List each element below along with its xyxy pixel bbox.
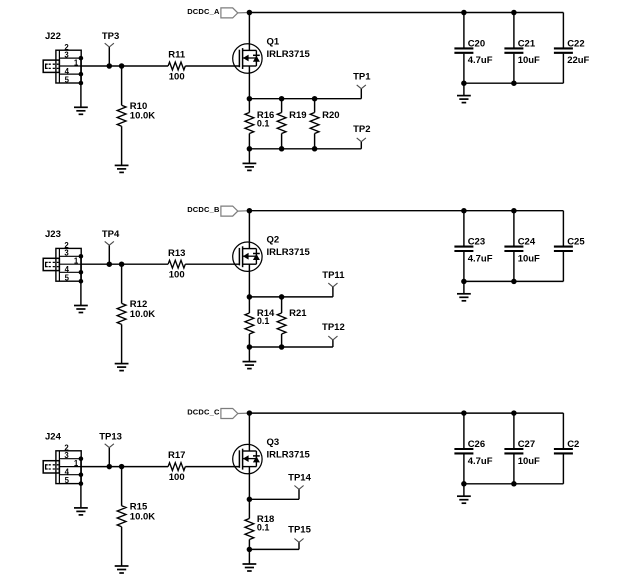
svg-text:10.0K: 10.0K bbox=[130, 511, 155, 522]
node R14 bottom junction bbox=[247, 344, 253, 350]
value 10uF of C21 bbox=[518, 55, 540, 66]
svg-text:IRLR3715: IRLR3715 bbox=[267, 49, 311, 60]
svg-text:C27: C27 bbox=[518, 439, 535, 450]
ground below R10 bbox=[115, 165, 129, 172]
node cap bus junction mid bbox=[511, 80, 517, 86]
svg-text:C2: C2 bbox=[567, 439, 579, 450]
value 22uF of C22 bbox=[567, 55, 589, 66]
capacitor C27 bbox=[504, 413, 535, 484]
svg-text:C20: C20 bbox=[468, 38, 485, 49]
wire to R16 bbox=[248, 99, 250, 113]
wire to R19 bbox=[281, 99, 283, 113]
svg-text:0.1: 0.1 bbox=[257, 523, 270, 533]
svg-text:R21: R21 bbox=[289, 308, 307, 319]
svg-text:4.7uF: 4.7uF bbox=[468, 456, 493, 467]
wire R11 to Q1 gate bbox=[185, 65, 239, 67]
node R19 top junction bbox=[279, 96, 285, 102]
J22 pin 5 bbox=[65, 75, 84, 85]
wire Q2 source to bus bbox=[248, 264, 250, 297]
resistor R16 bbox=[245, 110, 274, 134]
svg-text:TP1: TP1 bbox=[353, 72, 371, 83]
svg-text:IRLR3715: IRLR3715 bbox=[267, 247, 311, 258]
svg-text:Q3: Q3 bbox=[267, 437, 280, 448]
svg-text:10.0K: 10.0K bbox=[130, 111, 155, 122]
node R16 bottom junction bbox=[247, 146, 253, 152]
wire R14 to bottom bus bbox=[248, 334, 250, 347]
svg-text:TP14: TP14 bbox=[288, 472, 311, 483]
wire R15 to ground bbox=[121, 527, 123, 566]
svg-text:J24: J24 bbox=[45, 431, 62, 442]
J24 pin 4 bbox=[65, 468, 84, 477]
capacitor C20 bbox=[454, 13, 485, 84]
node R18 top junction bbox=[247, 497, 253, 503]
net DCDC_A off-page flag bbox=[221, 8, 250, 18]
wire bottom bus to TP2 bbox=[249, 142, 361, 149]
J24 pin 2 bbox=[64, 444, 69, 453]
svg-text:C24: C24 bbox=[518, 237, 536, 248]
wire top rail DCDC_A bbox=[249, 12, 563, 14]
wire to R21 bbox=[281, 297, 283, 313]
wire Q1 source to bus bbox=[248, 66, 250, 99]
ground at J22 bbox=[74, 107, 88, 114]
svg-text:R17: R17 bbox=[168, 450, 185, 461]
svg-text:Q2: Q2 bbox=[267, 235, 280, 246]
test point TP13 bbox=[99, 431, 122, 466]
node C26 top junction bbox=[461, 410, 467, 416]
J23 pin 1 bbox=[74, 257, 79, 266]
test point TP3 bbox=[102, 31, 119, 66]
svg-text:TP4: TP4 bbox=[102, 229, 120, 240]
Q3 label bbox=[267, 437, 280, 448]
svg-text:Q1: Q1 bbox=[267, 36, 280, 47]
svg-text:10uF: 10uF bbox=[518, 253, 540, 264]
capacitor C2 bbox=[554, 413, 579, 484]
J22 pin 1 bbox=[74, 58, 79, 67]
ground below C26 bbox=[457, 496, 471, 503]
node R19 bottom junction bbox=[279, 146, 285, 152]
ground below C23 bbox=[457, 294, 471, 301]
node cap bus junction mid bbox=[511, 279, 517, 285]
wire capacitor bottom bus bbox=[464, 82, 564, 84]
node R20 bottom junction bbox=[312, 146, 318, 152]
value 10uF of C27 bbox=[518, 456, 540, 467]
J22 pin 2 bbox=[64, 43, 69, 52]
resistor R15 bbox=[117, 502, 148, 527]
capacitor C22 bbox=[554, 13, 585, 84]
resistor R11 bbox=[168, 50, 186, 70]
capacitor C21 bbox=[504, 13, 535, 84]
wire bottom bus to TP15 bbox=[249, 542, 299, 549]
transistor Q1 IRLR3715 bbox=[233, 13, 262, 74]
svg-text:0.1: 0.1 bbox=[257, 316, 270, 326]
svg-text:5: 5 bbox=[65, 75, 70, 84]
test point TP11 bbox=[322, 270, 345, 287]
svg-text:TP15: TP15 bbox=[288, 524, 311, 535]
wire cap bus to ground bbox=[463, 83, 465, 95]
node cap bus junction left bbox=[461, 481, 467, 487]
svg-text:10uF: 10uF bbox=[518, 55, 540, 66]
svg-text:5: 5 bbox=[65, 274, 70, 283]
svg-text:R20: R20 bbox=[322, 110, 339, 121]
node R20 top junction bbox=[312, 96, 318, 102]
node C27 top junction bbox=[511, 410, 517, 416]
svg-text:3: 3 bbox=[64, 50, 69, 59]
net DCDC_A label bbox=[187, 7, 220, 16]
test point TP12 bbox=[322, 322, 345, 340]
ground below C20 bbox=[457, 96, 471, 103]
svg-text:5: 5 bbox=[65, 476, 70, 485]
J23 label bbox=[45, 229, 61, 240]
resistor R19 bbox=[277, 110, 306, 134]
node drain rail junction bbox=[247, 10, 253, 16]
svg-text:22uF: 22uF bbox=[567, 55, 589, 66]
value 0.1 of R18 bbox=[257, 523, 270, 533]
ground at J24 bbox=[74, 508, 88, 515]
resistor R21 bbox=[277, 308, 307, 334]
node C23 top junction bbox=[461, 208, 467, 214]
ground below R15 bbox=[115, 566, 129, 573]
svg-text:10.0K: 10.0K bbox=[130, 309, 155, 320]
node R18 bottom junction bbox=[247, 547, 253, 553]
net DCDC_C off-page flag bbox=[221, 409, 250, 419]
J22 pin 3 bbox=[64, 50, 83, 60]
resistor R18 bbox=[245, 514, 274, 539]
J23 pin 3 bbox=[64, 249, 83, 259]
node cap bus junction mid bbox=[511, 481, 517, 487]
ground below R14 bbox=[243, 362, 257, 369]
wire bottom bus to ground bbox=[248, 347, 250, 362]
wire capacitor bottom bus bbox=[464, 483, 564, 485]
svg-text:C22: C22 bbox=[567, 38, 584, 49]
node C21 top junction bbox=[511, 10, 517, 16]
svg-text:4.7uF: 4.7uF bbox=[468, 55, 493, 66]
node C24 top junction bbox=[511, 208, 517, 214]
wire R19 to bottom bus bbox=[281, 134, 283, 149]
test point TP4 bbox=[102, 229, 120, 264]
wire to resistor R15 bbox=[121, 467, 123, 506]
node test point TP3 junction bbox=[107, 63, 113, 69]
svg-text:1: 1 bbox=[74, 459, 79, 468]
wire J23 pins 3-5 to ground bbox=[80, 256, 82, 305]
svg-text:0.1: 0.1 bbox=[257, 118, 270, 128]
test point TP14 bbox=[288, 472, 311, 489]
wire cap bus to ground bbox=[463, 281, 465, 293]
node R15 branch junction bbox=[119, 464, 125, 470]
J22 label bbox=[45, 31, 61, 42]
J24 pin 5 bbox=[65, 476, 84, 486]
J23 pin 5 bbox=[65, 274, 84, 284]
wire R12 to ground bbox=[121, 324, 123, 363]
svg-text:R13: R13 bbox=[168, 248, 185, 259]
value 10.0K of R15 bbox=[130, 511, 155, 522]
svg-text:10uF: 10uF bbox=[518, 456, 540, 467]
wire bottom bus to TP12 bbox=[249, 340, 333, 347]
Q1 part IRLR3715 bbox=[267, 49, 311, 60]
wire capacitor bottom bus bbox=[464, 280, 564, 282]
wire R17 to Q3 gate bbox=[185, 466, 239, 468]
svg-text:3: 3 bbox=[64, 451, 69, 460]
value 4.7uF of C26 bbox=[468, 456, 493, 467]
value 4.7uF of C20 bbox=[468, 55, 493, 66]
transistor Q2 IRLR3715 bbox=[233, 211, 262, 272]
node R12 branch junction bbox=[119, 261, 125, 267]
value 100 of R17 bbox=[169, 472, 185, 483]
value 0.1 of R14 bbox=[257, 316, 270, 326]
svg-text:100: 100 bbox=[169, 270, 185, 281]
resistor R12 bbox=[117, 299, 147, 324]
capacitor C26 bbox=[454, 413, 485, 484]
svg-text:TP3: TP3 bbox=[102, 31, 119, 42]
svg-text:TP12: TP12 bbox=[322, 322, 345, 333]
value 4.7uF of C23 bbox=[468, 253, 493, 264]
J22 pin 4 bbox=[65, 67, 84, 76]
svg-text:4.7uF: 4.7uF bbox=[468, 253, 493, 264]
svg-text:DCDC_B: DCDC_B bbox=[187, 205, 220, 214]
node R10 branch junction bbox=[119, 63, 125, 69]
J24 pin 3 bbox=[64, 451, 83, 461]
net DCDC_C label bbox=[187, 408, 220, 417]
wire J24 pins 3-5 to ground bbox=[80, 459, 82, 508]
connector J22 bbox=[43, 50, 81, 83]
node R16 top junction bbox=[247, 96, 253, 102]
resistor R17 bbox=[168, 450, 185, 470]
connector J24 bbox=[43, 451, 81, 484]
wire bottom bus to ground bbox=[248, 149, 250, 164]
wire source bus to TP14 bbox=[249, 489, 299, 499]
wire J24 pin1 to R17 bbox=[81, 466, 168, 468]
ground below R16 bbox=[243, 163, 257, 170]
Q2 part IRLR3715 bbox=[267, 247, 311, 258]
net DCDC_B label bbox=[187, 205, 220, 214]
node cap bus junction left bbox=[461, 279, 467, 285]
net DCDC_B off-page flag bbox=[221, 206, 250, 216]
wire R16 to bottom bus bbox=[248, 134, 250, 149]
wire Q3 source to bus bbox=[248, 467, 250, 500]
wire R10 to ground bbox=[121, 126, 123, 165]
svg-text:C26: C26 bbox=[468, 439, 485, 450]
wire top rail DCDC_B bbox=[249, 210, 563, 212]
resistor R10 bbox=[117, 101, 147, 126]
svg-text:1: 1 bbox=[74, 257, 79, 266]
wire to R20 bbox=[314, 99, 316, 113]
svg-text:R19: R19 bbox=[289, 110, 306, 121]
capacitor C25 bbox=[554, 211, 585, 282]
test point TP1 bbox=[353, 72, 371, 89]
transistor Q3 IRLR3715 bbox=[233, 413, 262, 474]
value 100 of R13 bbox=[169, 270, 185, 281]
wire source bus to TP11 bbox=[249, 287, 333, 297]
node R21 bottom junction bbox=[279, 344, 285, 350]
svg-text:TP13: TP13 bbox=[99, 431, 122, 442]
Q1 label bbox=[267, 36, 280, 47]
value 10uF of C24 bbox=[518, 253, 540, 264]
svg-text:1: 1 bbox=[74, 58, 79, 67]
wire to resistor R12 bbox=[121, 264, 123, 303]
svg-text:R11: R11 bbox=[168, 50, 186, 61]
capacitor C24 bbox=[504, 211, 535, 282]
wire cap bus to ground bbox=[463, 484, 465, 496]
value 0.1 of R16 bbox=[257, 118, 270, 128]
capacitor C23 bbox=[454, 211, 485, 282]
wire J22 pin1 to R11 bbox=[81, 65, 168, 67]
wire R18 to bottom bus bbox=[248, 540, 250, 550]
node drain rail junction bbox=[247, 410, 253, 416]
wire bottom bus to ground bbox=[248, 549, 250, 564]
svg-text:J23: J23 bbox=[45, 229, 61, 240]
svg-text:3: 3 bbox=[64, 249, 69, 258]
Q3 part IRLR3715 bbox=[267, 449, 311, 460]
J24 label bbox=[45, 431, 62, 442]
svg-text:IRLR3715: IRLR3715 bbox=[267, 449, 311, 460]
ground at J23 bbox=[74, 306, 88, 313]
ground below R12 bbox=[115, 364, 129, 371]
test point TP15 bbox=[288, 524, 311, 542]
wire source bus to TP1 bbox=[249, 89, 361, 99]
wire R20 to bottom bus bbox=[314, 134, 316, 149]
svg-text:J22: J22 bbox=[45, 31, 61, 42]
wire top rail DCDC_C bbox=[249, 412, 563, 414]
ground below R18 bbox=[243, 564, 257, 571]
node test point TP13 junction bbox=[107, 464, 113, 470]
svg-text:C25: C25 bbox=[567, 237, 585, 248]
wire J23 pin1 to R13 bbox=[81, 263, 168, 265]
value 10.0K of R12 bbox=[130, 309, 155, 320]
J24 pin 1 bbox=[74, 459, 79, 468]
node drain rail junction bbox=[247, 208, 253, 214]
node R14 top junction bbox=[247, 294, 253, 300]
wire to resistor R10 bbox=[121, 66, 123, 105]
value 100 of R11 bbox=[169, 71, 185, 82]
svg-text:DCDC_C: DCDC_C bbox=[187, 408, 220, 417]
svg-text:100: 100 bbox=[169, 472, 185, 483]
J23 pin 4 bbox=[65, 265, 84, 274]
node C20 top junction bbox=[461, 10, 467, 16]
wire R13 to Q2 gate bbox=[185, 263, 239, 265]
resistor R20 bbox=[310, 110, 339, 134]
resistor R14 bbox=[245, 308, 275, 334]
svg-text:C23: C23 bbox=[468, 237, 485, 248]
J23 pin 2 bbox=[64, 241, 69, 250]
wire J22 pins 3-5 to ground bbox=[80, 58, 82, 107]
node R21 top junction bbox=[279, 294, 285, 300]
wire R21 to bottom bus bbox=[281, 334, 283, 347]
value 10.0K of R10 bbox=[130, 111, 155, 122]
node cap bus junction left bbox=[461, 80, 467, 86]
Q2 label bbox=[267, 235, 280, 246]
svg-text:100: 100 bbox=[169, 71, 185, 82]
connector J23 bbox=[43, 248, 81, 281]
wire to R18 bbox=[248, 499, 250, 518]
resistor R13 bbox=[168, 248, 185, 268]
svg-text:TP2: TP2 bbox=[353, 124, 370, 135]
svg-text:C21: C21 bbox=[518, 38, 536, 49]
wire to R14 bbox=[248, 297, 250, 313]
svg-text:DCDC_A: DCDC_A bbox=[187, 7, 220, 16]
svg-text:TP11: TP11 bbox=[322, 270, 345, 281]
test point TP2 bbox=[353, 124, 370, 142]
node test point TP4 junction bbox=[107, 261, 113, 267]
